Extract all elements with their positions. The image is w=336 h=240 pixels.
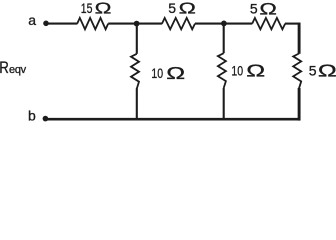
resistor R6 5 ohm vertical zigzag xyxy=(293,54,301,89)
svg-text:10: 10 xyxy=(151,66,163,82)
resistor R3 5 ohm zigzag xyxy=(252,18,285,29)
label R5 value 10 ohm xyxy=(231,61,265,81)
wire node d down to R5 xyxy=(223,24,225,54)
label R1 value 15 ohm xyxy=(81,1,112,18)
svg-text:Ω: Ω xyxy=(318,60,336,80)
svg-text:Ω: Ω xyxy=(259,1,277,19)
junction node d dot xyxy=(221,21,227,27)
label R3 value 5 ohm xyxy=(250,1,277,19)
svg-text:a: a xyxy=(28,12,36,28)
wire R2 to node d xyxy=(195,23,224,25)
svg-text:Ω: Ω xyxy=(179,0,196,17)
label R4 value 10 ohm xyxy=(151,63,185,83)
svg-text:5: 5 xyxy=(309,63,317,79)
svg-text:R: R xyxy=(0,58,9,77)
junction node c dot xyxy=(134,21,140,27)
resistor R2 5 ohm zigzag xyxy=(162,18,195,29)
resistor R5 10 ohm vertical zigzag xyxy=(218,53,226,88)
wire R6 to bottom rail xyxy=(298,88,301,121)
svg-text:Ω: Ω xyxy=(166,63,185,83)
wire node c down to R4 xyxy=(136,24,138,54)
svg-text:b: b xyxy=(28,108,36,124)
svg-text:10: 10 xyxy=(231,63,243,79)
svg-text:5: 5 xyxy=(168,0,176,16)
terminal b dot xyxy=(43,116,49,122)
terminal a dot xyxy=(43,21,49,27)
label R6 value 5 ohm xyxy=(309,60,336,80)
resistor R4 10 ohm vertical zigzag xyxy=(131,54,139,89)
resistor R1 15 ohm zigzag xyxy=(77,18,108,29)
label R2 value 5 ohm xyxy=(168,0,196,18)
svg-text:eqv: eqv xyxy=(9,64,27,76)
bottom rail wire b to right corner xyxy=(45,118,300,121)
svg-text:15: 15 xyxy=(81,1,93,17)
wire R5 to bottom rail xyxy=(223,88,225,120)
wire R1 to node c xyxy=(108,23,136,25)
wire top right corner down to R6 xyxy=(298,23,301,54)
wire node d to R3 xyxy=(224,23,252,25)
svg-text:Ω: Ω xyxy=(246,61,265,81)
wire R4 to bottom rail xyxy=(136,88,138,120)
equivalent resistance label Reqv xyxy=(0,58,27,77)
wire node c to R2 xyxy=(137,23,163,25)
wire a to R1 xyxy=(46,23,77,25)
wire R3 to top right corner xyxy=(285,23,300,25)
svg-text:5: 5 xyxy=(250,1,258,17)
svg-text:Ω: Ω xyxy=(95,1,112,18)
